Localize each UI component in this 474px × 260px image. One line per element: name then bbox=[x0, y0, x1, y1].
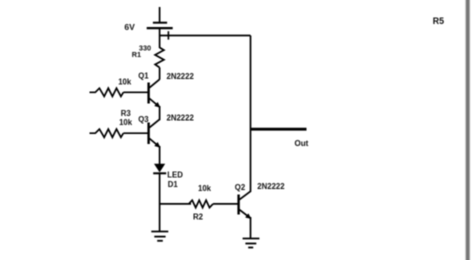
svg-text:Q2: Q2 bbox=[235, 183, 246, 192]
wire Q3 emitter to LED anode bbox=[159, 146, 161, 165]
wire Q2 emitter to ground bbox=[250, 217, 252, 239]
svg-text:R2: R2 bbox=[193, 213, 204, 222]
wire 10k to Q1 base bbox=[123, 91, 147, 93]
transistor Q3 (2N2222) bbox=[149, 119, 161, 148]
svg-text:R1: R1 bbox=[132, 50, 141, 59]
svg-text:2N2222: 2N2222 bbox=[167, 114, 195, 123]
svg-text:R3: R3 bbox=[121, 109, 132, 118]
wire Q1 emitter to Q3 collector bbox=[159, 106, 161, 120]
scrollbar at right edge bbox=[466, 0, 470, 260]
wire junction to R2 bbox=[160, 203, 191, 205]
wire LED cathode to ground / node junction bbox=[159, 173, 161, 231]
resistor R2 10k bbox=[189, 200, 213, 207]
resistor R3 10k (base of Q3) bbox=[90, 129, 124, 137]
wire R1 bottom lead bbox=[159, 68, 161, 80]
svg-text:6V: 6V bbox=[124, 22, 135, 32]
resistor 10k (base of Q1) bbox=[90, 88, 124, 96]
resistor R1 bbox=[155, 48, 164, 68]
svg-text:10k: 10k bbox=[119, 118, 133, 127]
svg-text:Out: Out bbox=[295, 139, 309, 148]
LED D1 bbox=[153, 164, 166, 174]
battery B1 (6V) bbox=[147, 7, 173, 48]
wire top rail (battery + to right rail) bbox=[160, 35, 251, 37]
wire R3 to Q3 base bbox=[123, 132, 147, 134]
wire right rail (down to Q2 collector) bbox=[250, 36, 252, 193]
svg-text:Q1: Q1 bbox=[138, 71, 149, 80]
svg-text:2N2222: 2N2222 bbox=[257, 182, 285, 191]
transistor Q1 (2N2222) bbox=[149, 79, 161, 108]
transistor Q2 (2N2222) bbox=[239, 191, 252, 219]
plus terminal tick bbox=[167, 31, 169, 39]
wire R2 to Q2 base bbox=[213, 203, 238, 205]
ground (under Q2 emitter) bbox=[243, 239, 260, 248]
svg-text:Q3: Q3 bbox=[138, 115, 149, 124]
svg-text:10k: 10k bbox=[198, 184, 212, 193]
svg-text:D1: D1 bbox=[168, 180, 179, 189]
ground (under LED node) bbox=[151, 232, 168, 241]
svg-text:R5: R5 bbox=[433, 16, 444, 26]
wire Out (thick stub) bbox=[251, 128, 307, 131]
svg-text:10k: 10k bbox=[118, 77, 132, 86]
svg-text:2N2222: 2N2222 bbox=[167, 72, 195, 81]
svg-text:LED: LED bbox=[167, 170, 183, 179]
